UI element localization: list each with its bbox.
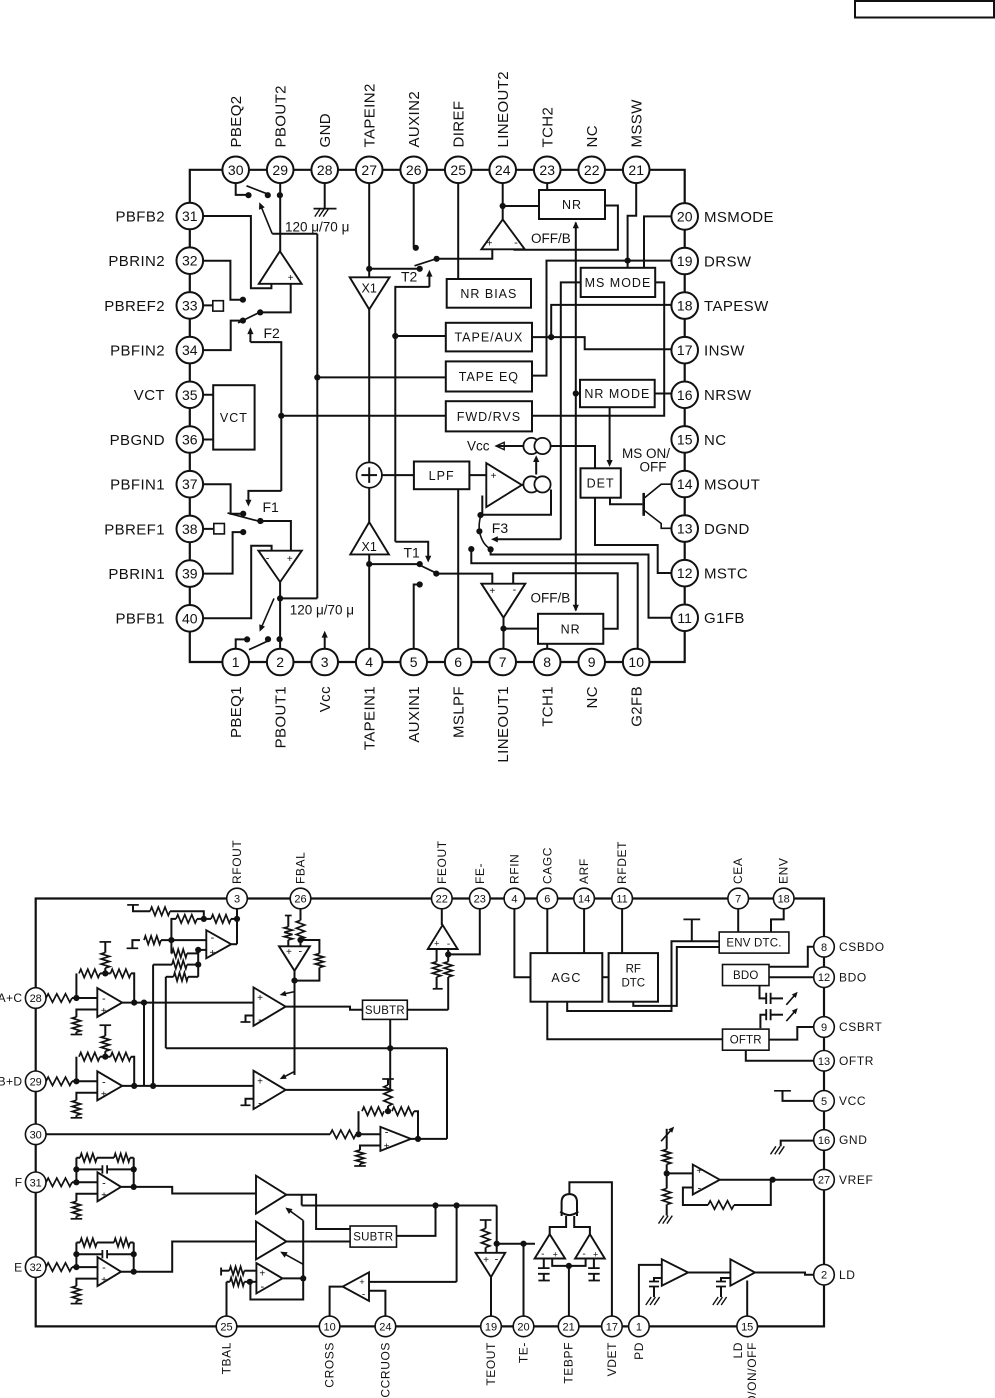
svg-text:BDO: BDO (733, 970, 759, 982)
svg-text:8: 8 (821, 942, 827, 954)
node pin24 branch (500, 203, 506, 209)
svg-text:26: 26 (294, 894, 306, 906)
wire A17 out to pin19 (490, 1277, 492, 1316)
wire A16 input upper (369, 1281, 457, 1283)
svg-text:13: 13 (818, 1056, 830, 1068)
svg-text:22: 22 (584, 162, 600, 178)
svg-text:PD: PD (632, 1342, 646, 1360)
svg-text:6: 6 (454, 654, 462, 670)
svg-text:30: 30 (30, 1129, 42, 1141)
svg-text:17: 17 (677, 342, 693, 358)
wire pin35 to VCT (190, 394, 213, 396)
resistor pin30 (330, 1130, 380, 1138)
svg-text:26: 26 (406, 162, 422, 178)
mirror link arrow (533, 455, 539, 474)
switch F2 contacts (240, 297, 264, 324)
svg-text:DET: DET (587, 477, 615, 491)
bias tee FBAL + (285, 916, 292, 927)
NR mode control line (573, 222, 579, 612)
wire pin11 (RFDET) (621, 899, 623, 954)
svg-text:+: + (384, 1142, 390, 1153)
svg-text:+: + (101, 1006, 107, 1017)
switch T2 blade (415, 258, 438, 265)
svg-text:OFF/B: OFF/B (531, 591, 571, 606)
wire T1 to LINEOUT1 amp (436, 574, 492, 584)
svg-text:-: - (447, 939, 450, 950)
svg-text:X1: X1 (362, 540, 377, 554)
svg-text:-: - (514, 237, 518, 249)
svg-text:TEOUT: TEOUT (484, 1342, 498, 1386)
capacitor label 120u/70u (bottom) (290, 603, 354, 618)
svg-text:24: 24 (495, 162, 511, 178)
comparator A12 (575, 1234, 605, 1260)
XOR gate U6 (560, 1194, 578, 1216)
svg-text:15: 15 (677, 431, 693, 447)
IC2 bottom pin labels (220, 1342, 760, 1398)
switch F1 control arrow (245, 491, 281, 515)
switch F2 control arrow (247, 325, 280, 342)
svg-text:35: 35 (182, 387, 198, 403)
svg-text:RFIN: RFIN (507, 854, 521, 884)
svg-text:FEOUT: FEOUT (435, 840, 449, 884)
SUBTR box (bottom) (350, 1226, 396, 1247)
svg-text:MSTC: MSTC (704, 566, 748, 583)
resistor TEOUT top (480, 1220, 492, 1253)
bias tee RFOUT minus (127, 940, 140, 948)
bias tee VCC pin5 (774, 1091, 814, 1101)
svg-text:OFF: OFF (640, 460, 667, 475)
svg-text:LD: LD (731, 1342, 745, 1359)
wire A19 to A20 (688, 1272, 730, 1274)
wire A5 out to pin3 (231, 899, 237, 945)
NR BIAS box (447, 279, 531, 308)
switch S1 (PBEQ2 select) contacts (245, 192, 283, 198)
svg-text:12: 12 (677, 565, 693, 581)
svg-text:VCT: VCT (134, 387, 165, 404)
resistor VREF upper (663, 1149, 671, 1173)
svg-text:RFDET: RFDET (615, 841, 629, 884)
wire 1048 bus (166, 1047, 447, 1049)
svg-text:15: 15 (741, 1321, 753, 1333)
svg-text:7: 7 (735, 894, 741, 906)
wire NR feedback to U4 (513, 573, 618, 629)
wire pin36 to VCT (190, 439, 213, 441)
wire SUBTR out (397, 1202, 439, 1236)
wire pin24 to U5 apex (502, 170, 504, 220)
wire F3 to G1FB (pin11) (491, 549, 672, 617)
svg-text:-: - (260, 1281, 264, 1293)
resistor R1 (RFOUT fb) (150, 907, 207, 922)
resistor R6 (sum B) (153, 960, 198, 1086)
amp X1 (record) (350, 277, 390, 309)
wire U5 + to T2 (437, 249, 493, 258)
amp A2 (B+D input) with resistor network (46, 1025, 137, 1118)
svg-text:G1FB: G1FB (704, 610, 745, 627)
svg-text:PBRIN1: PBRIN1 (108, 566, 165, 583)
svg-text:27: 27 (818, 1175, 830, 1187)
amp A7 (RF gain) (254, 987, 286, 1026)
svg-text:MSSW: MSSW (629, 99, 646, 148)
svg-text:FE-: FE- (473, 863, 487, 884)
wire pin38 to test pad (190, 528, 214, 530)
svg-text:31: 31 (182, 208, 198, 224)
svg-text:-: - (102, 1177, 106, 1189)
op-amp A5 (RFOUT) (206, 930, 231, 959)
amp A13 (TE) (256, 1176, 286, 1214)
RF DTC box (609, 953, 658, 1002)
wire A13 out to SUBTR (286, 1195, 350, 1229)
resistor VREF lower (663, 1173, 671, 1215)
svg-text:A+C: A+C (0, 991, 23, 1005)
switch F1 blade (228, 513, 264, 523)
svg-text:+: + (259, 1268, 265, 1279)
wire X1 to summing node (368, 309, 370, 462)
svg-text:4: 4 (511, 894, 517, 906)
svg-text:DGND: DGND (704, 521, 750, 538)
node TAPE EQ junction (314, 374, 320, 380)
wire pin25 to NR BIAS (457, 170, 459, 279)
wire A7 out to SUBTR (286, 1007, 363, 1010)
svg-text:11: 11 (616, 894, 627, 906)
svg-text:E: E (14, 1260, 22, 1274)
svg-text:19: 19 (677, 253, 693, 269)
IC1 bottom pin labels (228, 686, 645, 763)
Vcc label and arrow (467, 439, 524, 454)
svg-text:1: 1 (232, 654, 240, 670)
amp A17 (TEOUT) (476, 1253, 506, 1277)
svg-text:39: 39 (182, 566, 198, 582)
resistor FBAL top (296, 920, 304, 946)
svg-text:20: 20 (517, 1321, 529, 1333)
svg-text:-: - (298, 945, 302, 957)
svg-text:PBOUT2: PBOUT2 (273, 85, 290, 147)
wire pin5 to T1 contact (414, 585, 420, 653)
wire pin18 (TAPESW) (551, 305, 671, 337)
wire A3 out to T1 (121, 1187, 256, 1194)
wire FWD/RVS box left (281, 415, 446, 417)
wire SUBTR out to FE fb (407, 1009, 448, 1011)
svg-text:4: 4 (365, 654, 373, 670)
IC1 pin circles (177, 157, 699, 676)
svg-text:VCC: VCC (839, 1094, 866, 1108)
svg-text:BDO: BDO (839, 970, 867, 984)
svg-text:120 μ/70 μ: 120 μ/70 μ (290, 603, 354, 618)
IC2 right pin labels (839, 940, 885, 1282)
svg-text:T2: T2 (401, 269, 418, 285)
svg-text:F1: F1 (263, 499, 280, 515)
TBAL control arrows (280, 1208, 303, 1279)
wire pin28 to ground (324, 170, 326, 209)
svg-text:MSOUT: MSOUT (704, 476, 760, 493)
amp A18 feedback (359, 1107, 422, 1142)
wire A5 + rail (195, 947, 206, 977)
IC2 pin circles (25, 888, 834, 1336)
switch F3 contacts (468, 512, 494, 553)
svg-text:B+D: B+D (0, 1075, 23, 1089)
svg-text:+: + (287, 554, 293, 565)
FWD/RVS box (446, 401, 532, 431)
wire pin26 down (300, 899, 302, 921)
svg-text:-: - (102, 1262, 106, 1274)
op-amp A18 (380, 1127, 411, 1153)
gain control arrow to A7 (280, 991, 295, 997)
test pad square pin33 (213, 301, 224, 311)
wire pin23 (FE-) (445, 899, 480, 958)
svg-text:DTC: DTC (621, 978, 645, 990)
svg-text:PBGND: PBGND (110, 432, 165, 449)
svg-text:13: 13 (677, 521, 693, 537)
ground symbol G1 (314, 209, 337, 217)
wire to TAPE/AUX box (395, 335, 446, 337)
bias bar TBAL (221, 1268, 229, 1276)
switch T2 control arrow (401, 269, 433, 287)
node U4 output (500, 626, 506, 632)
svg-text:-: - (541, 1249, 544, 1260)
svg-text:+: + (286, 947, 292, 958)
svg-text:MSMODE: MSMODE (704, 209, 774, 226)
svg-text:27: 27 (361, 162, 377, 178)
VCT box (213, 385, 254, 449)
wire pin7 (CEA) (737, 899, 739, 933)
LPF box (414, 462, 470, 490)
svg-text:TE-: TE- (517, 1342, 531, 1363)
wire AGC-RFDTC (602, 976, 608, 978)
svg-text:+: + (359, 1277, 364, 1287)
wire pin39 to F1 contact (190, 532, 243, 574)
resistor A9 feedback leg (444, 949, 452, 1010)
SUBTR box (top) (363, 1000, 408, 1019)
svg-text:OFTR: OFTR (839, 1054, 874, 1068)
svg-text:9: 9 (821, 1022, 827, 1034)
amp A1 (A+C input) with resistor network (46, 942, 137, 1035)
svg-text:30: 30 (228, 162, 244, 178)
switch S2 (PBEQ1 select) contacts (244, 636, 283, 642)
svg-text:AGC: AGC (551, 971, 581, 985)
capacitor C1 with trim arrow (760, 986, 798, 1005)
svg-text:16: 16 (818, 1135, 830, 1147)
wire pin12 (BDO) (769, 976, 814, 978)
svg-text:RFOUT: RFOUT (230, 840, 244, 884)
wire pin8 (CSBDO) (769, 947, 814, 967)
svg-text:LPF: LPF (429, 469, 455, 483)
svg-text:SUBTR: SUBTR (365, 1005, 405, 1017)
svg-text:TAPE EQ: TAPE EQ (459, 370, 519, 384)
svg-text:11: 11 (677, 610, 692, 626)
node NR MODE junction (573, 390, 580, 396)
svg-text:14: 14 (578, 894, 590, 906)
op-amp U3 (MS) (486, 463, 522, 507)
wire DET to pin12 (MSTC) (595, 498, 672, 573)
svg-text:NC: NC (584, 686, 601, 708)
svg-text:5: 5 (821, 1096, 827, 1108)
wire TEOUT minus link (494, 1206, 500, 1253)
svg-text:NR BIAS: NR BIAS (460, 287, 517, 301)
switch T1 control arrow (395, 542, 431, 563)
wire A8 out to SUBTR (286, 1019, 391, 1090)
svg-text:23: 23 (539, 162, 555, 178)
svg-text:10: 10 (628, 654, 644, 670)
wire A18 out (411, 1138, 447, 1140)
wire pin21 (MSSW) to MS MODE box (628, 170, 637, 268)
svg-text:-: - (385, 1127, 389, 1139)
capacitor A12 input (588, 1259, 600, 1281)
wire A9 to pin22 (441, 899, 443, 926)
svg-text:-: - (513, 584, 517, 596)
amp A8 (RF gain) (254, 1071, 286, 1110)
svg-text:O/ON/OFF: O/ON/OFF (745, 1342, 759, 1398)
svg-text:+: + (434, 939, 439, 949)
svg-text:GND: GND (317, 113, 334, 148)
svg-text:Vcc: Vcc (467, 439, 490, 454)
switch F1 contacts (240, 511, 263, 536)
svg-text:FWD/RVS: FWD/RVS (457, 410, 521, 424)
svg-text:NRSW: NRSW (704, 387, 752, 404)
svg-text:VREF: VREF (839, 1173, 873, 1187)
svg-text:29: 29 (30, 1076, 42, 1088)
op-amp U2 (258, 551, 301, 582)
switch T1 blade (419, 565, 438, 574)
wire MS MODE right to FWD/RVS (532, 282, 664, 415)
wire pin4 (RFIN) to AGC (514, 899, 530, 978)
A15 feedback loop (250, 1278, 303, 1299)
wire A13 out feeder (301, 1195, 303, 1206)
svg-text:SUBTR: SUBTR (353, 1232, 393, 1244)
svg-text:3: 3 (321, 654, 329, 670)
switch T2 contacts (413, 245, 440, 272)
Vcc arrow at pin3 (322, 631, 328, 652)
svg-text:MS MODE: MS MODE (585, 276, 652, 290)
svg-text:CSBDO: CSBDO (839, 940, 885, 954)
amp A4 (E input) with RC network (46, 1238, 137, 1303)
IC2 top pin labels (230, 840, 791, 884)
DET box (581, 468, 621, 497)
wire A2 out (122, 1085, 253, 1087)
NR MODE box (580, 380, 655, 407)
wire pin15 to A20 (746, 1281, 748, 1317)
svg-text:PBFIN2: PBFIN2 (110, 343, 165, 360)
svg-text:NC: NC (584, 125, 601, 147)
svg-text:-: - (102, 993, 106, 1005)
wire MS MODE left to F3 control (561, 282, 581, 539)
switch S1 blade (247, 186, 267, 194)
op-amp A19 (PD) (662, 1259, 688, 1285)
svg-text:AUXIN2: AUXIN2 (406, 91, 423, 148)
wire pin21 (TEBPF) (552, 1259, 585, 1317)
svg-text:10: 10 (323, 1321, 335, 1333)
svg-text:NR MODE: NR MODE (584, 387, 650, 401)
svg-text:+: + (483, 1255, 489, 1266)
wire XOR out to pin17 (VDET) (569, 1182, 612, 1316)
svg-text:RF: RF (626, 964, 641, 976)
svg-text:21: 21 (562, 1321, 574, 1333)
svg-text:NR: NR (561, 622, 581, 636)
wire TAPE/AUX to pin17 (INSW) (532, 337, 672, 349)
ground VREF (659, 1216, 673, 1224)
svg-text:LINEOUT2: LINEOUT2 (495, 71, 512, 148)
switch S2 blade (249, 640, 270, 650)
wire A10 out to pin27 (720, 1177, 814, 1183)
label MS ON/OFF (622, 446, 670, 475)
OFTR box (723, 1029, 770, 1050)
IC2 outline (36, 899, 824, 1327)
wire summing to LPF (382, 474, 414, 476)
TAPE/AUX box (446, 323, 532, 352)
svg-text:DIREF: DIREF (451, 101, 468, 148)
node FWD/RVS junction (278, 413, 284, 419)
wire A16 input to pin24 (369, 1291, 385, 1316)
svg-text:20: 20 (677, 208, 693, 224)
current mirror Q4 lower (523, 476, 550, 492)
svg-text:VCT: VCT (220, 411, 248, 425)
node pin27 to T2 (366, 266, 372, 272)
label OFF/B (bottom) (531, 591, 571, 606)
IC1 top pin labels (228, 71, 645, 148)
svg-text:CCRUOS: CCRUOS (378, 1342, 392, 1398)
svg-text:CROSS: CROSS (323, 1342, 337, 1388)
svg-text:33: 33 (182, 297, 198, 313)
svg-text:PBFB1: PBFB1 (115, 611, 165, 628)
svg-text:29: 29 (272, 162, 288, 178)
wire pin8 to NR (546, 644, 548, 652)
IC1 left pin labels (104, 208, 165, 627)
IC2 left pin labels (0, 991, 23, 1274)
wire T1 line (369, 563, 420, 565)
wire RFDTC bottom to ENV DTC (633, 947, 719, 1006)
wire LPF to pin6 (457, 489, 459, 652)
wire U4 out to pin7 (503, 618, 505, 652)
svg-text:25: 25 (450, 162, 466, 178)
wire U4 out to NR box (504, 628, 539, 630)
svg-text:TAPEIN2: TAPEIN2 (362, 83, 379, 147)
svg-text:28: 28 (30, 993, 42, 1005)
svg-text:TAPE/AUX: TAPE/AUX (454, 331, 523, 345)
wire CROSS input vertical (454, 1202, 460, 1282)
svg-text:LINEOUT1: LINEOUT1 (495, 686, 512, 763)
svg-text:ENV: ENV (777, 858, 791, 884)
capacitor label 120u/70u (top) (285, 220, 349, 235)
svg-text:+: + (487, 239, 493, 250)
resistor R7 (sum C) (166, 973, 198, 1049)
wire pin23 to NR (546, 170, 548, 190)
svg-text:24: 24 (379, 1321, 391, 1333)
wire A20 out to pin2 (755, 1273, 814, 1275)
svg-text:-: - (266, 553, 270, 565)
amp A6 (FBAL) (279, 945, 310, 970)
svg-text:OFTR: OFTR (730, 1035, 762, 1047)
NR box (top) (539, 190, 605, 219)
svg-text:-: - (102, 1076, 106, 1088)
wire U3 out to mirror (522, 484, 524, 486)
svg-text:PBEQ2: PBEQ2 (228, 95, 245, 147)
wire U1 + input to switch F2 (260, 284, 291, 313)
wire NR MODE to pin16 (NRSW) (655, 393, 672, 395)
NR box (bottom) (538, 614, 603, 644)
wire pin24 to NR left (503, 205, 539, 207)
AGC box (531, 953, 603, 1002)
wire LPF to MS amp (469, 474, 486, 476)
wire pin9 (CSBRT) (769, 1027, 814, 1040)
svg-text:MSLPF: MSLPF (451, 686, 468, 738)
wire A16 out to pin10 (330, 1287, 343, 1317)
svg-text:PBEQ1: PBEQ1 (228, 686, 245, 738)
bias tee ENV DTC (683, 919, 700, 941)
svg-text:-: - (582, 1249, 585, 1260)
svg-text:NC: NC (704, 432, 726, 449)
svg-text:37: 37 (182, 476, 198, 492)
svg-text:G2FB: G2FB (629, 686, 646, 727)
wire T2 control from TAPE/AUX (395, 287, 429, 542)
amp A15 (TBAL comp) (256, 1263, 282, 1293)
